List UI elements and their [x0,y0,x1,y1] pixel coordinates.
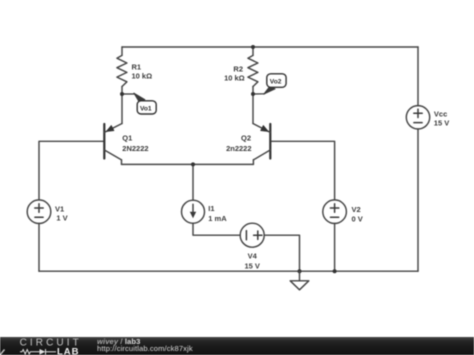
junction node Vo2 [251,92,255,96]
wire Q2 emitter drop [252,160,254,165]
wire R2 bottom lead [252,87,254,95]
resistor R2 [224,55,258,86]
svg-text:V1: V1 [55,204,64,213]
wire I1 top lead [192,164,194,200]
svg-text:R2: R2 [233,64,243,73]
wire V2 bottom lead [334,223,336,271]
wire top rail [122,46,418,48]
wire I1 bottom to V4 [193,223,240,235]
footer text [97,338,140,346]
logo CircuitLab [0,337,96,355]
wire V4 to ground branch [264,235,299,271]
svg-text:10 kΩ: 10 kΩ [224,73,245,82]
node flag Vo1 [122,93,156,114]
svg-text:I1: I1 [208,204,214,213]
voltage source V1 [27,200,67,224]
transistor Q2 [226,124,270,160]
wire bottom rail [39,270,418,272]
voltage source Vcc [406,106,449,129]
wire R1 bottom lead [121,87,123,95]
svg-text:LAB: LAB [57,347,80,355]
junction node ground [298,269,302,273]
ground [290,271,309,290]
svg-text:2N2222: 2N2222 [122,144,148,153]
wire Q1 collector [121,94,123,124]
svg-text:Vo1: Vo1 [140,105,152,112]
footer bar [0,337,474,355]
svg-text:2n2222: 2n2222 [226,144,251,153]
wire R2 top lead [252,47,254,55]
junction node at R2 top [251,45,255,49]
junction node Vo1 [120,92,124,96]
svg-text:15 V: 15 V [244,261,259,270]
wire V1 bottom lead [38,223,40,271]
voltage source V2 [323,200,363,224]
svg-text:Vo2: Vo2 [270,79,282,86]
wire right rail Vcc bottom [417,129,419,271]
current source I1 [182,200,228,223]
svg-text:0 V: 0 V [352,215,363,224]
svg-text:10 kΩ: 10 kΩ [132,71,153,80]
svg-text:Vcc: Vcc [434,109,447,118]
junction node emitter/I1 [191,162,195,166]
junction node V2 bottom [333,269,337,273]
wire Q1 base to V1 [39,141,104,200]
resistor R1 [117,55,152,86]
svg-text:15 V: 15 V [434,119,449,128]
svg-text:1 V: 1 V [56,214,67,223]
wire emitter rail [122,163,254,165]
node flag Vo2 [253,74,286,95]
wire Q2 base to V2 [270,141,334,200]
wire right rail Vcc top [417,47,419,106]
svg-text:Q2: Q2 [241,133,251,142]
wire Q2 collector [252,94,254,124]
wire R1 top lead [121,47,123,55]
transistor Q1 [104,124,148,160]
svg-text:V4: V4 [248,251,258,260]
svg-text:Q1: Q1 [122,133,132,142]
svg-text:V2: V2 [352,205,361,214]
wire Q1 emitter drop [121,160,123,165]
svg-text:1 mA: 1 mA [208,214,227,223]
svg-text:R1: R1 [132,62,142,71]
voltage source V4 [240,223,264,270]
